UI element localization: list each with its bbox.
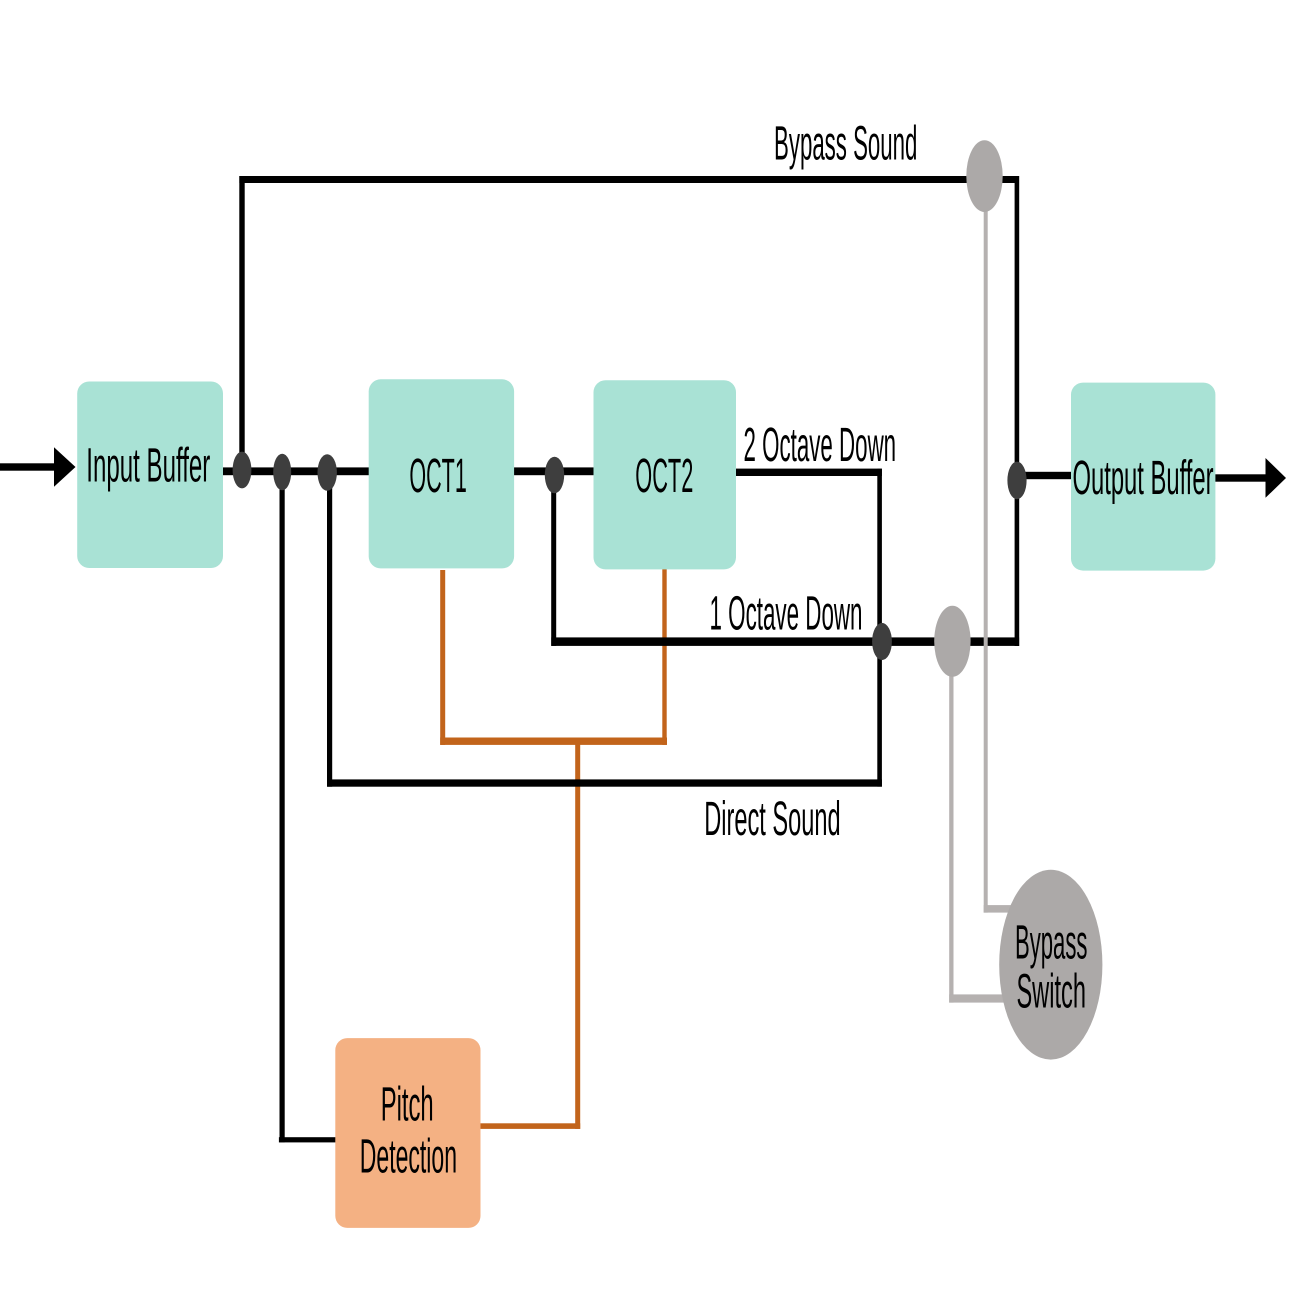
wire gray octave lead horizontal y=999 bbox=[949, 994, 1006, 1002]
switch contact ellipse on bypass line bbox=[966, 140, 1002, 212]
svg-text:1 Octave Down: 1 Octave Down bbox=[710, 587, 863, 640]
wire gray bypass switch lead vertical x=985.7 bbox=[984, 176, 988, 913]
wire gray octave lead vertical x=951.3 bbox=[949, 641, 953, 1003]
wire orange pitch riser x=577.7 bbox=[575, 741, 580, 1129]
wire 2 octave down vertical drop x=880 bbox=[877, 469, 882, 787]
wire OCT2 output 2 Octave Down horizontal bbox=[734, 469, 882, 476]
wire OCT1 to OCT2 bbox=[512, 467, 595, 475]
junction dot J3 direct tap bbox=[318, 454, 337, 491]
wire input arrow shaft bbox=[0, 463, 55, 470]
wire right vertical x=1016 from bypass to 1 octave line bbox=[1015, 176, 1020, 646]
wire orange OCT1 control drop x=442.7 bbox=[440, 570, 445, 745]
wire bypass vertical riser x=242 bbox=[239, 176, 244, 471]
junction dot J1 bypass tap bbox=[233, 452, 252, 489]
wire pitch detection feed vertical x=281 bbox=[280, 470, 285, 1142]
wire pitch detection feed horizontal y=1140 bbox=[279, 1137, 337, 1142]
block Input Buffer bbox=[77, 382, 223, 569]
svg-text:Detection: Detection bbox=[360, 1131, 457, 1184]
wire direct sound vertical x=330 bbox=[327, 470, 332, 787]
junction dot J2 pitch tap bbox=[273, 454, 291, 491]
junction dot J5 1 octave line bbox=[872, 623, 892, 660]
wire orange pitch horizontal y=1126 bbox=[481, 1123, 581, 1129]
svg-text:Output Buffer: Output Buffer bbox=[1073, 452, 1214, 505]
wire direct sound horizontal y=783 bbox=[327, 779, 882, 786]
wire orange OCT2 control drop x=664.5 bbox=[662, 568, 666, 745]
junction dot J6 output node bbox=[1007, 462, 1026, 500]
wire output arrow shaft bbox=[1214, 474, 1266, 481]
wire orange control horizontal y=741 bbox=[440, 738, 667, 745]
svg-text:OCT1: OCT1 bbox=[409, 450, 466, 503]
svg-text:Bypass: Bypass bbox=[1015, 916, 1088, 969]
svg-text:Bypass Sound: Bypass Sound bbox=[774, 118, 917, 171]
switch contact ellipse on 1 octave line bbox=[934, 606, 970, 677]
junction dot J4 OCT1 output bbox=[545, 457, 564, 494]
wire gray bypass switch lead horizontal y=909 bbox=[984, 905, 1012, 913]
wire 1 octave down horizontal y=640 bbox=[551, 637, 1019, 646]
svg-text:Input Buffer: Input Buffer bbox=[86, 439, 210, 492]
svg-text:OCT2: OCT2 bbox=[635, 450, 693, 503]
svg-text:2 Octave Down: 2 Octave Down bbox=[744, 419, 897, 472]
bypass switch ellipse bbox=[999, 870, 1102, 1060]
wire input arrowhead bbox=[54, 447, 76, 487]
svg-text:Pitch: Pitch bbox=[381, 1079, 434, 1132]
wire output junction to Output Buffer bbox=[1016, 472, 1072, 479]
block Pitch Detection bbox=[335, 1038, 480, 1228]
wire main bus Input Buffer to OCT1 bbox=[220, 467, 370, 475]
svg-text:Direct Sound: Direct Sound bbox=[704, 793, 840, 846]
wire bypass sound horizontal y=178 bbox=[239, 176, 1018, 183]
wire 1 octave down vertical x=554 bbox=[551, 471, 556, 646]
block OCT2 bbox=[594, 380, 737, 569]
svg-text:Switch: Switch bbox=[1016, 965, 1086, 1018]
block Output Buffer bbox=[1071, 383, 1215, 571]
block OCT1 bbox=[369, 379, 514, 568]
wire output arrowhead bbox=[1266, 458, 1287, 498]
